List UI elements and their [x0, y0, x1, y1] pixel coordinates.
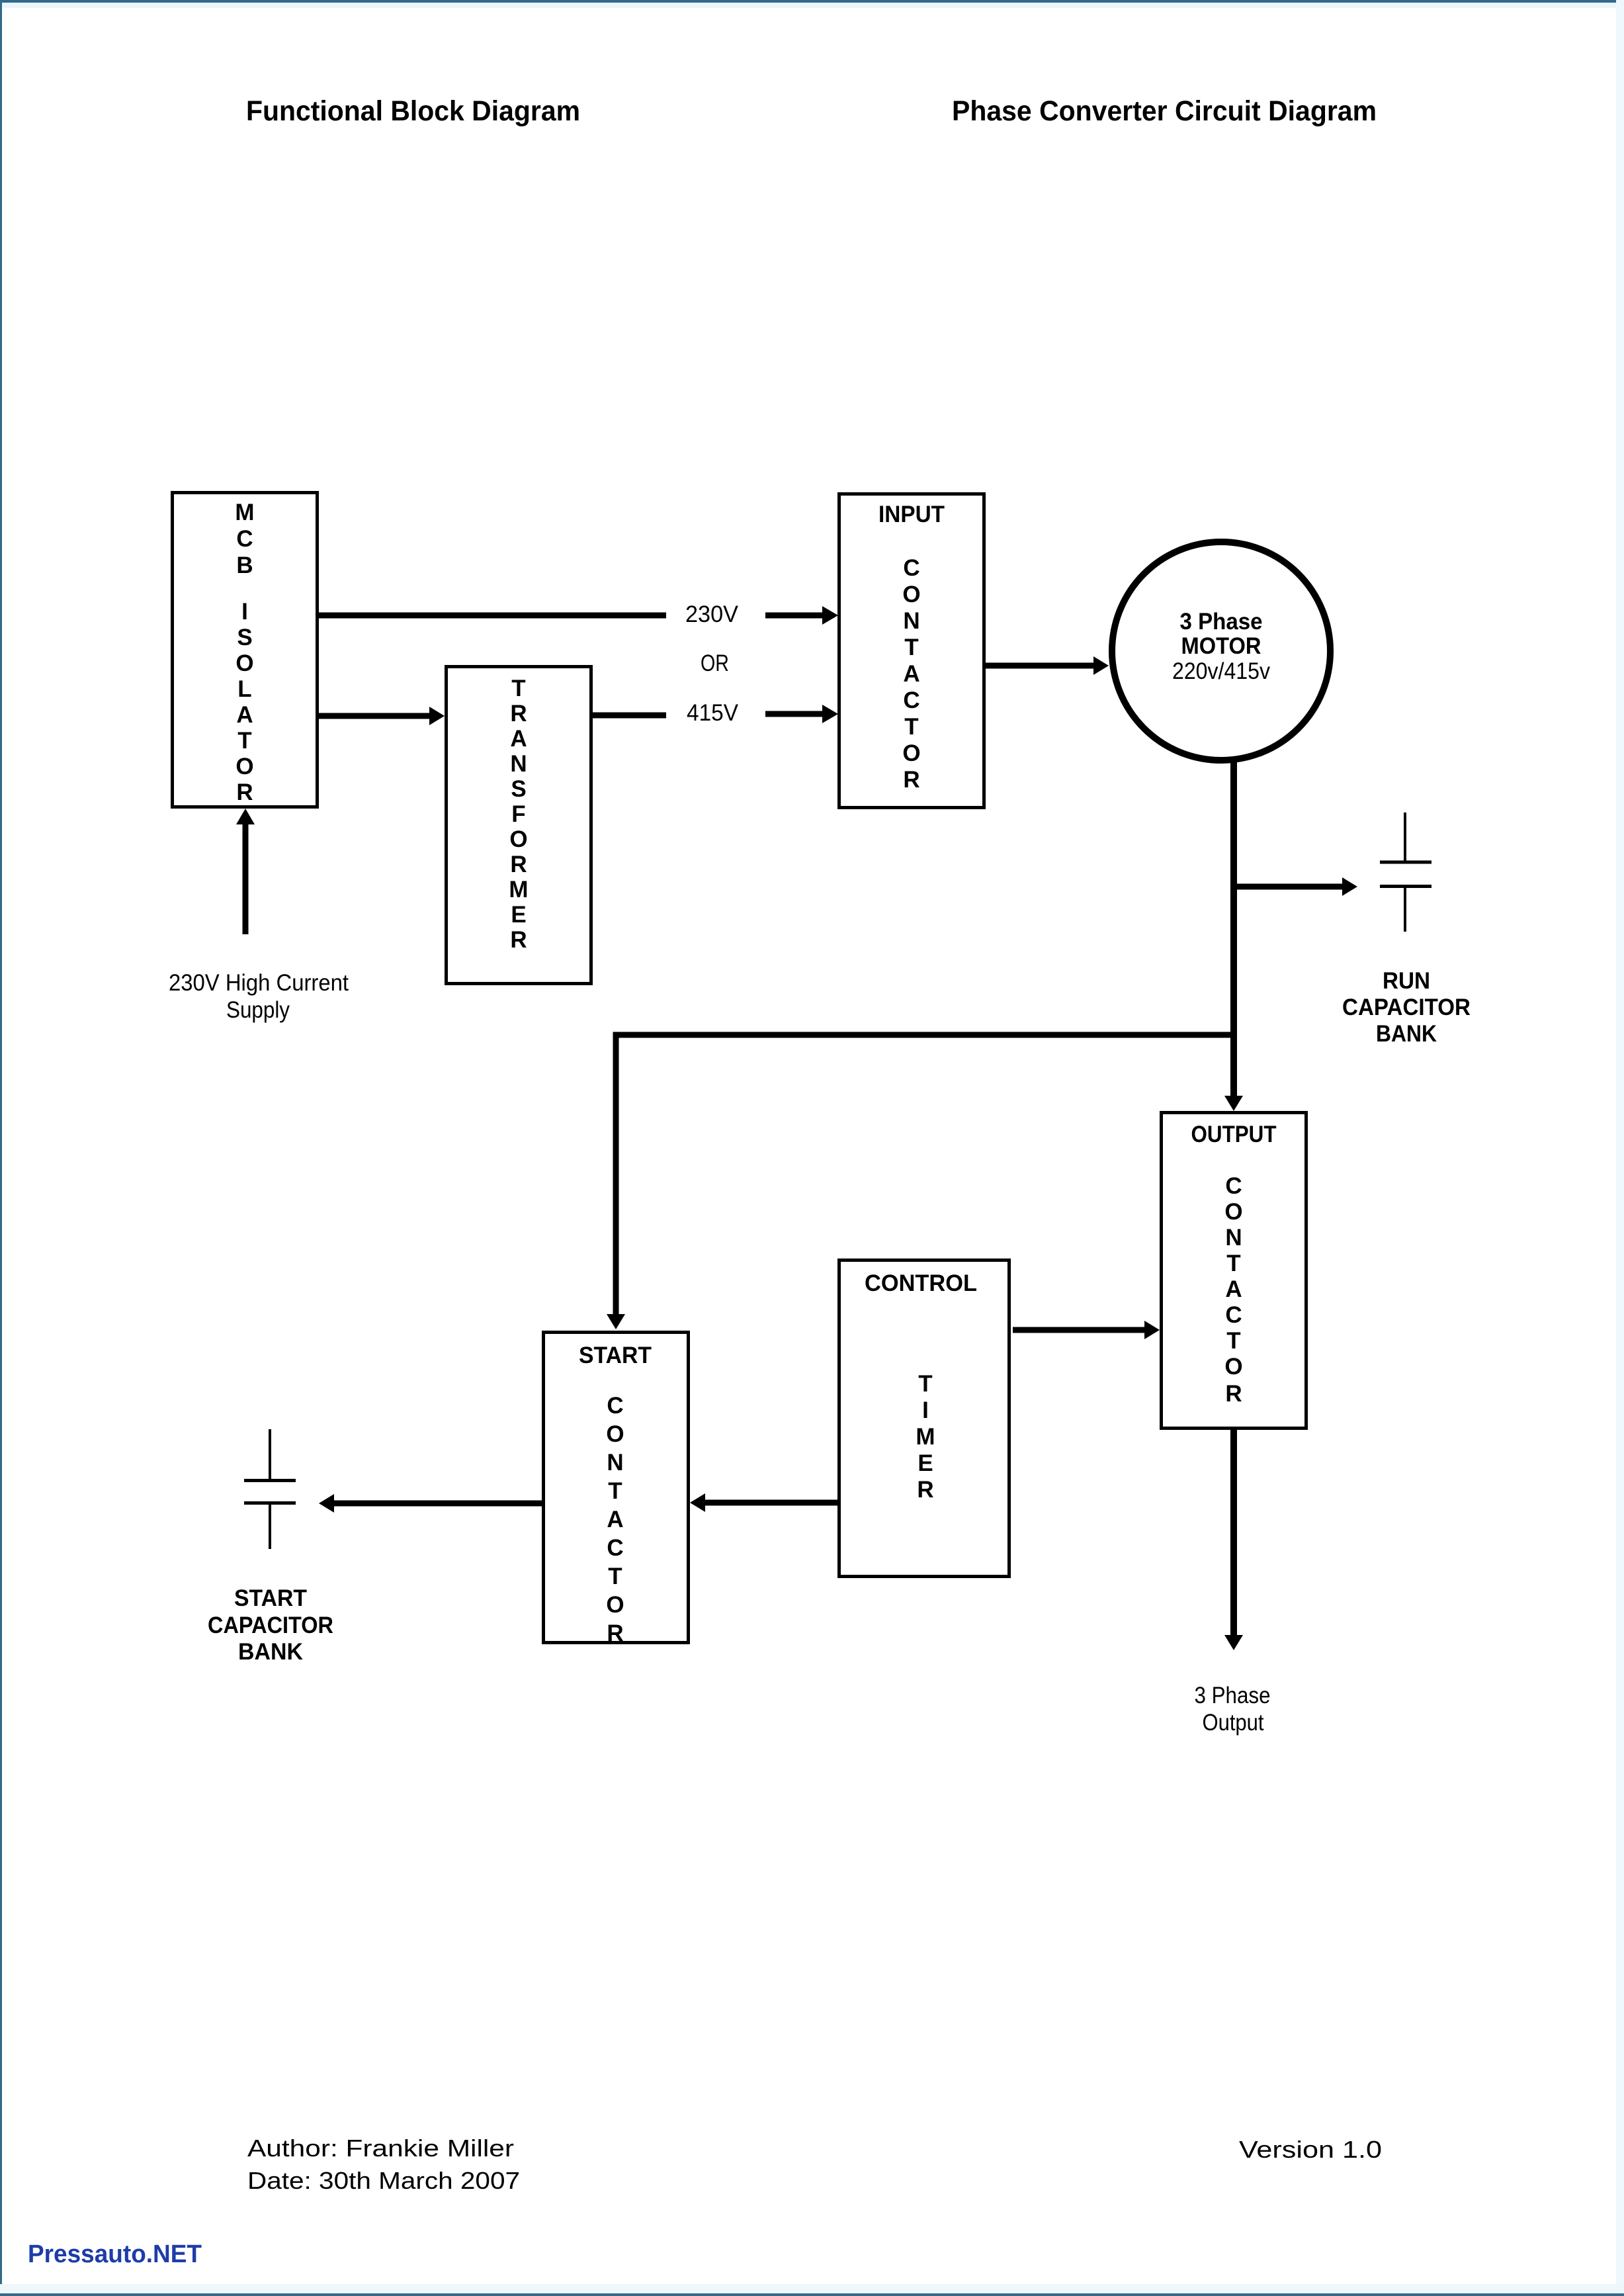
svg-text:N: N [607, 1450, 623, 1476]
svg-text:OUTPUT: OUTPUT [1191, 1122, 1277, 1147]
arrowhead into MCB bottom [236, 809, 255, 824]
capacitor start bank symbol [244, 1429, 296, 1549]
arrowhead 230V [822, 606, 838, 625]
svg-text:Author: Frankie Miller: Author: Frankie Miller [247, 2135, 514, 2162]
arrowhead into transformer [429, 707, 445, 725]
svg-text:C: C [903, 687, 919, 713]
svg-text:BANK: BANK [1376, 1021, 1437, 1047]
svg-text:M: M [509, 877, 528, 903]
label 230V High Current Supply [169, 970, 349, 1023]
svg-text:O: O [235, 650, 253, 676]
wire timer to output contactor [1013, 1327, 1146, 1333]
label ISOLATOR [235, 599, 253, 805]
svg-text:START: START [579, 1343, 652, 1368]
svg-text:R: R [1225, 1381, 1242, 1407]
svg-text:O: O [509, 826, 527, 852]
svg-text:I: I [241, 599, 248, 625]
arrowhead into start contactor right [690, 1493, 705, 1512]
wire start contactor to start capacitor [333, 1501, 542, 1507]
svg-text:T: T [904, 635, 918, 660]
wire motor output trunk [1230, 762, 1237, 1097]
arrowhead into start contactor [607, 1314, 625, 1329]
svg-text:B: B [236, 552, 253, 578]
svg-text:R: R [917, 1477, 933, 1503]
label RUN CAPACITOR BANK [1342, 968, 1471, 1047]
arrowhead into output contactor [1224, 1096, 1243, 1111]
capacitor run bank symbol [1380, 813, 1432, 932]
wire 415V into input contactor [765, 711, 824, 717]
svg-text:Functional Block Diagram: Functional Block Diagram [246, 95, 580, 127]
svg-text:C: C [236, 526, 253, 552]
block OUTPUT CONTACTOR box [1162, 1113, 1306, 1429]
block TRANSFORMER box [447, 667, 591, 984]
svg-text:CAPACITOR: CAPACITOR [208, 1612, 333, 1638]
svg-text:R: R [607, 1620, 623, 1646]
svg-text:T: T [1226, 1251, 1240, 1276]
svg-text:F: F [511, 801, 525, 827]
svg-text:L: L [237, 676, 251, 702]
svg-text:R: R [510, 852, 527, 877]
arrowhead at motor [1093, 656, 1109, 675]
svg-text:Date: 30th March 2007: Date: 30th March 2007 [247, 2167, 520, 2194]
svg-text:Output: Output [1203, 1710, 1264, 1736]
svg-text:O: O [902, 740, 920, 766]
svg-text:230V: 230V [685, 601, 739, 627]
svg-text:A: A [903, 661, 919, 687]
wire 3 phase output [1230, 1430, 1237, 1636]
svg-text:MOTOR: MOTOR [1181, 633, 1261, 659]
svg-text:Phase Converter Circuit Diagra: Phase Converter Circuit Diagram [952, 95, 1377, 127]
svg-text:RUN: RUN [1383, 968, 1430, 994]
label CONTACTOR (input) [902, 555, 920, 793]
svg-text:Supply: Supply [226, 997, 290, 1023]
svg-text:N: N [1225, 1225, 1242, 1251]
svg-text:O: O [902, 582, 920, 607]
svg-text:A: A [236, 702, 253, 728]
label MCB [235, 500, 254, 578]
label 3 Phase Output [1195, 1683, 1271, 1736]
svg-text:E: E [918, 1450, 933, 1476]
label TIMER [916, 1371, 935, 1503]
arrowhead at run capacitor [1342, 877, 1357, 896]
svg-text:OR: OR [701, 650, 729, 676]
motor M 3-phase circle [1112, 542, 1330, 760]
block MCB ISOLATOR box [173, 493, 318, 807]
svg-text:T: T [918, 1371, 932, 1397]
block INPUT CONTACTOR box [839, 494, 984, 808]
svg-text:415V: 415V [687, 700, 739, 726]
svg-text:T: T [608, 1564, 622, 1589]
label TRANSFORMER [509, 676, 528, 953]
block START CONTACTOR box [544, 1333, 689, 1643]
label CONTACTOR (output) [1224, 1173, 1242, 1407]
svg-text:3 Phase: 3 Phase [1195, 1683, 1271, 1708]
svg-text:220v/415v: 220v/415v [1172, 658, 1270, 684]
svg-text:O: O [235, 754, 253, 779]
svg-text:R: R [510, 927, 527, 953]
svg-text:M: M [235, 500, 254, 525]
label START CAPACITOR BANK [208, 1585, 333, 1665]
arrowhead at start capacitor [319, 1494, 334, 1513]
arrowhead 415V [822, 705, 838, 723]
svg-text:M: M [916, 1424, 935, 1450]
svg-text:S: S [511, 776, 526, 802]
wire 230V into input contactor [765, 613, 824, 619]
svg-text:O: O [1224, 1199, 1242, 1225]
svg-text:230V High Current: 230V High Current [169, 970, 349, 996]
svg-text:BANK: BANK [238, 1639, 303, 1665]
svg-text:A: A [607, 1507, 623, 1532]
wire supply into MCB [243, 824, 249, 934]
wire transformer output [593, 713, 666, 719]
svg-text:N: N [903, 608, 919, 634]
svg-text:T: T [237, 728, 251, 754]
label CONTACTOR (start) [606, 1393, 624, 1646]
svg-text:T: T [608, 1478, 622, 1504]
svg-text:C: C [1225, 1302, 1242, 1328]
svg-text:INPUT: INPUT [878, 502, 945, 527]
svg-text:R: R [903, 767, 919, 793]
svg-text:Version 1.0: Version 1.0 [1239, 2136, 1382, 2163]
svg-text:R: R [510, 701, 527, 727]
wire branch to start contactor [616, 1035, 1234, 1315]
wire input contactor to motor [986, 663, 1095, 669]
svg-text:A: A [510, 726, 527, 752]
wire branch to run capacitor [1234, 884, 1344, 890]
svg-text:C: C [607, 1535, 623, 1561]
wire timer to start contactor [705, 1500, 837, 1506]
svg-text:A: A [1225, 1276, 1242, 1302]
svg-text:N: N [510, 751, 527, 777]
svg-text:START: START [234, 1585, 307, 1611]
svg-text:E: E [511, 902, 526, 928]
svg-text:T: T [904, 714, 918, 740]
svg-text:S: S [237, 625, 252, 650]
svg-text:I: I [922, 1397, 929, 1423]
svg-text:O: O [606, 1421, 624, 1447]
svg-text:Pressauto.NET: Pressauto.NET [28, 2240, 202, 2268]
svg-text:T: T [1226, 1328, 1240, 1354]
svg-text:3 Phase: 3 Phase [1180, 609, 1263, 635]
arrowhead into output contactor left [1144, 1321, 1160, 1339]
svg-text:CAPACITOR: CAPACITOR [1342, 994, 1471, 1020]
svg-text:CONTROL: CONTROL [865, 1270, 977, 1296]
wire 230V feed from MCB [319, 613, 666, 619]
svg-text:O: O [606, 1592, 624, 1618]
block CONTROL TIMER box [839, 1260, 1009, 1577]
svg-text:C: C [1225, 1173, 1242, 1199]
svg-text:O: O [1224, 1354, 1242, 1380]
wire MCB to transformer [319, 713, 431, 719]
svg-text:R: R [236, 779, 253, 805]
svg-text:C: C [607, 1393, 623, 1419]
arrowhead 3 phase output [1224, 1635, 1243, 1650]
svg-text:C: C [903, 555, 919, 581]
svg-text:T: T [511, 676, 525, 701]
